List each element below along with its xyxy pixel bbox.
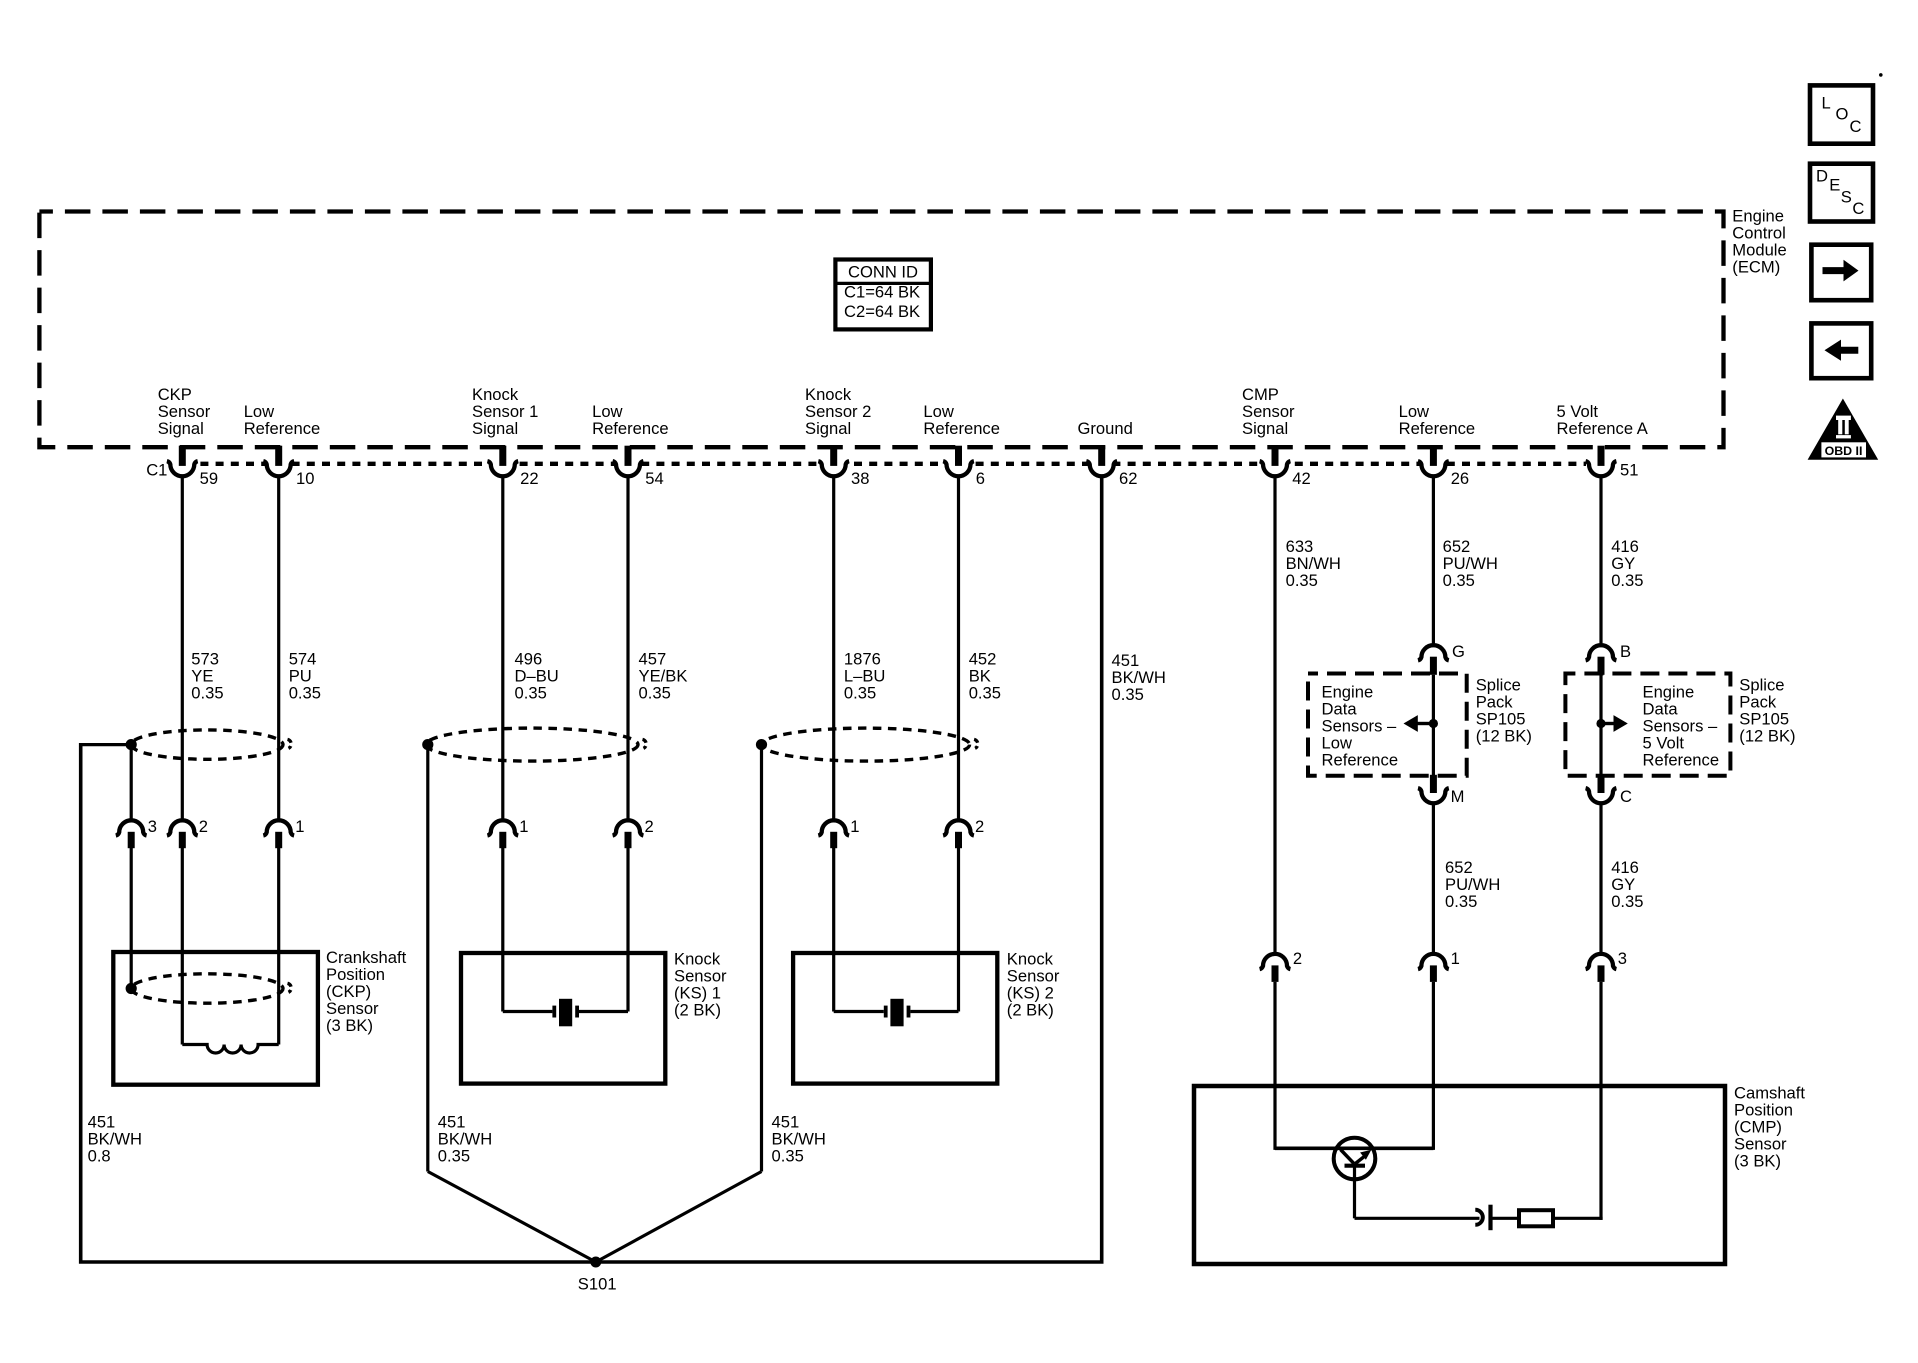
label wire 416 GY 0.35 lower (1611, 858, 1643, 911)
CMP harness connector terminal 3 (1586, 949, 1627, 982)
KS1 shield drain dot (422, 739, 433, 750)
wire resistor to 5V leg (1553, 1217, 1603, 1220)
harness connector terminal 1 (x=278.7) (263, 817, 304, 848)
label wire 1876 L-BU 0.35 (844, 649, 886, 702)
svg-text:2: 2 (645, 817, 654, 836)
harness connector terminal 2 (x=628.0) (613, 817, 654, 848)
CMP low ref wire into box (1432, 982, 1435, 1150)
svg-text:0.35: 0.35 (515, 683, 547, 702)
svg-text:10: 10 (296, 469, 314, 488)
Engine Data Sensors Low Reference dashed box (1308, 674, 1467, 776)
label wire 451 BK/WH 0.35 ground (1112, 651, 1166, 704)
svg-text:OBD II: OBD II (1825, 444, 1863, 458)
svg-text:1: 1 (295, 817, 304, 836)
svg-text:(2 BK): (2 BK) (1007, 1000, 1054, 1019)
svg-text:CONN ID: CONN ID (848, 262, 918, 281)
CKP sensor label (326, 948, 407, 1035)
label S101 (578, 1275, 617, 1294)
Knock Sensor 2 box (793, 953, 997, 1084)
wire 457 YE/BK (pin 54 to KS1) (626, 476, 629, 823)
svg-text:59: 59 (200, 469, 218, 488)
KS1 pin2 wire (626, 848, 629, 1012)
svg-text:(2 BK): (2 BK) (674, 1000, 721, 1019)
KS2 shield drain dot (756, 739, 767, 750)
CKP pin2 wire to coil (181, 848, 184, 1045)
svg-text:(12 BK): (12 BK) (1476, 726, 1532, 745)
svg-text:Signal: Signal (158, 419, 204, 438)
svg-text:0.35: 0.35 (1611, 571, 1643, 590)
CONN ID table box (835, 260, 931, 330)
svg-text:0.8: 0.8 (88, 1146, 111, 1165)
Knock Sensor 1 box (461, 953, 665, 1084)
pin label Knock Sensor 2 Signal (805, 385, 871, 438)
svg-text:C1=64 BK: C1=64 BK (844, 283, 920, 302)
wire 496 D-BU (pin 22 to KS1) (501, 476, 504, 823)
wire 652 through splice box (1432, 675, 1435, 776)
CKP shield drain wire to left (81, 743, 132, 746)
svg-text:S101: S101 (578, 1275, 617, 1294)
pin label 5 Volt Reference A (1557, 402, 1649, 438)
label wire 452 BK 0.35 (969, 649, 1001, 702)
KS1 drain diagonal to S101 (428, 1172, 596, 1263)
svg-text:C: C (1850, 117, 1862, 136)
KS1 drain wire down (426, 745, 429, 1172)
KS2 drain wire down (760, 745, 763, 1172)
svg-text:51: 51 (1620, 461, 1638, 480)
svg-text:1: 1 (1451, 949, 1460, 968)
CMP emitter wire (1355, 1166, 1480, 1219)
CKP shield drain dot (126, 739, 137, 750)
ECM pin 38 terminal (818, 446, 869, 488)
KS2 shield ellipse (762, 728, 978, 761)
svg-text:Signal: Signal (805, 419, 851, 438)
LOC icon box (1810, 85, 1873, 143)
svg-text:2: 2 (975, 817, 984, 836)
CKP pickup coil (182, 1045, 278, 1054)
harness connector terminal 1 (x=833.7) (818, 817, 859, 848)
transistor emitter arrow (1355, 1150, 1372, 1164)
CONN ID title (848, 262, 918, 281)
KS2 pin1 wire (832, 848, 835, 1012)
CMP signal wire into box (1273, 982, 1276, 1150)
ECM pin 26 terminal (1418, 446, 1469, 488)
resistor R1 (1519, 1210, 1553, 1226)
KS1 piezo element (503, 999, 628, 1027)
svg-text:Reference A: Reference A (1557, 419, 1649, 438)
wire 451 BK/WH ground (pin 62 to S101 line) (1100, 476, 1103, 1262)
wire 452 BK (pin 6 to KS2) (957, 476, 960, 823)
transistor emitter bar (1345, 1164, 1366, 1168)
OBD II triangle icon (1808, 399, 1879, 460)
CMP sensor label (1734, 1083, 1805, 1170)
ECM pin 51 terminal (1586, 446, 1639, 480)
KS1 pin1 wire (501, 848, 504, 1012)
svg-text:22: 22 (520, 469, 538, 488)
label Splice Pack SP105 (left) (1476, 675, 1532, 745)
forward arrow icon (1811, 245, 1871, 301)
splice connector G terminal (1418, 642, 1465, 675)
connector C1 dotted line (170, 462, 1586, 466)
label wire 416 GY 0.35 upper (1611, 537, 1643, 590)
wire 416 below splice (1599, 804, 1602, 957)
label Splice Pack SP105 (right) (1739, 675, 1795, 745)
pin label Knock Sensor 1 Signal (472, 385, 538, 438)
wire 1876 L-BU (pin 38 to KS2) (832, 476, 835, 823)
ECM pin 10 terminal (263, 446, 314, 488)
drain wire 451 BK/WH 0.8 left run (79, 743, 82, 1262)
Engine Data Sensors 5 Volt Reference dashed box (1565, 674, 1730, 776)
wire 633 BN/WH (pin 42 down) (1273, 476, 1276, 956)
svg-text:0.35: 0.35 (1112, 685, 1144, 704)
svg-text:Ground: Ground (1078, 419, 1133, 438)
svg-text:D: D (1816, 167, 1828, 186)
pin label Low Reference (pin 54) (592, 402, 669, 438)
CMP 5V wire into box (1599, 982, 1602, 1220)
label 451 BK/WH 0.35 (KS2 drain) (772, 1112, 826, 1165)
CKP inner shield ellipse (131, 974, 291, 1003)
CKP pin3 wire to inner shield (130, 848, 133, 989)
wire 652 PU/WH (pin 26 to splice G) (1432, 476, 1435, 647)
KS1 label (674, 949, 727, 1019)
pin label Low Reference (pin 26) (1399, 402, 1476, 438)
CONN ID row C2 (844, 302, 920, 321)
wire 652 below splice (1432, 804, 1435, 957)
CKP inner shield dot (126, 983, 137, 994)
CKP pin3 wire from dot (130, 745, 133, 823)
splice box 2 arrow (1596, 715, 1627, 732)
svg-text:1: 1 (850, 817, 859, 836)
svg-text:2: 2 (199, 817, 208, 836)
svg-text:Signal: Signal (1242, 419, 1288, 438)
svg-text:0.35: 0.35 (844, 683, 876, 702)
wire 416 GY (pin 51 to splice B) (1599, 476, 1602, 647)
ECM pin 22 terminal (487, 446, 538, 488)
Crankshaft Position (CKP) Sensor box (113, 952, 318, 1085)
harness connector terminal 1 (x=502.8) (487, 817, 528, 848)
KS2 pin2 wire (957, 848, 960, 1012)
svg-text:C1: C1 (146, 461, 167, 480)
CKP harness shield ellipse (131, 730, 291, 759)
svg-text:6: 6 (976, 469, 985, 488)
back arrow icon (1811, 323, 1871, 378)
splice connector M terminal (1418, 775, 1464, 806)
svg-text:M: M (1451, 787, 1465, 806)
svg-text:(3 BK): (3 BK) (326, 1016, 373, 1035)
svg-text:0.35: 0.35 (438, 1146, 470, 1165)
svg-text:(ECM): (ECM) (1732, 258, 1780, 277)
KS2 drain diagonal to S101 (596, 1172, 762, 1263)
wire capacitor to resistor (1490, 1217, 1519, 1220)
svg-text:3: 3 (148, 817, 157, 836)
label wire 573 YE 0.35 (191, 649, 223, 702)
svg-text:L: L (1822, 94, 1831, 113)
svg-text:38: 38 (851, 469, 869, 488)
wire 573 YE (pin 59 to CKP) (181, 476, 184, 823)
svg-text:E: E (1829, 176, 1840, 195)
splice S101 dot (590, 1257, 601, 1268)
svg-text:(12 BK): (12 BK) (1739, 726, 1795, 745)
pin label Low Reference (pin 10) (244, 402, 321, 438)
svg-text:(3 BK): (3 BK) (1734, 1151, 1781, 1170)
svg-text:0.35: 0.35 (1443, 571, 1475, 590)
svg-text:0.35: 0.35 (1286, 571, 1318, 590)
splice box 1 text (1322, 683, 1399, 770)
svg-text:0.35: 0.35 (772, 1146, 804, 1165)
svg-text:Signal: Signal (472, 419, 518, 438)
splice connector B terminal (1586, 642, 1631, 675)
scan speck (1879, 73, 1883, 77)
ECM pin 54 terminal (613, 446, 664, 488)
svg-text:Reference: Reference (923, 419, 1000, 438)
splice box 1 arrow (1404, 715, 1439, 732)
splice connector C terminal (1586, 775, 1632, 806)
DESC icon box (1810, 164, 1873, 222)
svg-text:Reference: Reference (592, 419, 669, 438)
svg-text:Reference: Reference (1399, 419, 1476, 438)
label wire 457 YE/BK 0.35 (639, 649, 688, 702)
wire 416 through splice box (1599, 675, 1602, 776)
ECM pin 62 terminal (1086, 446, 1137, 488)
ECM pin 59 terminal (167, 446, 218, 488)
ECM name label (1732, 207, 1786, 277)
label 451 BK/WH 0.35 (KS1 drain) (438, 1112, 492, 1165)
pin label Ground (1078, 419, 1133, 438)
harness connector terminal 2 (x=958.5) (943, 817, 984, 848)
label wire 574 PU 0.35 (289, 649, 321, 702)
transistor Q1 circle (1334, 1138, 1376, 1180)
label wire 652 PU/WH 0.35 lower (1445, 858, 1500, 911)
svg-text:62: 62 (1119, 469, 1137, 488)
transistor base diagonal (1341, 1150, 1355, 1164)
svg-text:26: 26 (1451, 469, 1469, 488)
KS2 label (1007, 949, 1060, 1019)
harness connector terminal 2 (x=182.3) (167, 817, 208, 848)
svg-text:0.35: 0.35 (969, 683, 1001, 702)
pin label CKP Sensor Signal (158, 385, 211, 438)
svg-text:Reference: Reference (1322, 751, 1399, 770)
label wire 496 D-BU 0.35 (515, 649, 559, 702)
svg-text:G: G (1452, 642, 1465, 661)
svg-text:O: O (1836, 105, 1849, 124)
svg-text:C: C (1852, 199, 1864, 218)
svg-text:0.35: 0.35 (1611, 892, 1643, 911)
svg-text:Reference: Reference (244, 419, 321, 438)
capacitor C1 flat plate (1488, 1205, 1492, 1231)
svg-text:C: C (1620, 787, 1632, 806)
svg-text:3: 3 (1618, 949, 1627, 968)
svg-text:1: 1 (519, 817, 528, 836)
harness connector terminal 3 (x=131.2) (116, 817, 157, 848)
ECM pin 42 terminal (1260, 446, 1311, 488)
svg-text:Reference: Reference (1643, 751, 1720, 770)
svg-text:0.35: 0.35 (191, 683, 223, 702)
CKP pin1 wire to coil (277, 848, 280, 1045)
label 451 BK/WH 0.8 (88, 1112, 142, 1165)
svg-text:0.35: 0.35 (639, 683, 671, 702)
CMP collector line (1275, 1147, 1433, 1151)
svg-text:B: B (1620, 642, 1631, 661)
Camshaft Position (CMP) Sensor box (1194, 1086, 1725, 1264)
svg-text:C2=64 BK: C2=64 BK (844, 302, 920, 321)
pin label Low Reference (pin 6) (923, 402, 1000, 438)
CONN ID row C1 (844, 283, 920, 302)
svg-text:0.35: 0.35 (1445, 892, 1477, 911)
connector designator C1 (146, 461, 167, 480)
wire 574 PU (pin 10 to CKP) (277, 476, 280, 823)
label wire 652 PU/WH 0.35 upper (1443, 537, 1498, 590)
KS2 piezo element (834, 999, 959, 1027)
capacitor C1 curved plate (1475, 1210, 1483, 1225)
svg-text:S: S (1841, 187, 1852, 206)
Engine Control Module (ECM) dashed box (39, 212, 1723, 448)
svg-text:2: 2 (1293, 949, 1302, 968)
CMP harness connector terminal 1 (1418, 949, 1460, 982)
CMP harness connector terminal 2 (1260, 949, 1303, 982)
ECM pin 6 terminal (943, 446, 985, 488)
KS1 shield ellipse (426, 728, 646, 761)
label wire 633 BN/WH 0.35 (1286, 537, 1341, 590)
pin label CMP Sensor Signal (1242, 385, 1295, 438)
splice box 2 text (1643, 683, 1720, 770)
ground bus S101 run (81, 475, 1102, 1262)
svg-text:54: 54 (645, 469, 663, 488)
svg-text:42: 42 (1292, 469, 1310, 488)
svg-text:0.35: 0.35 (289, 683, 321, 702)
